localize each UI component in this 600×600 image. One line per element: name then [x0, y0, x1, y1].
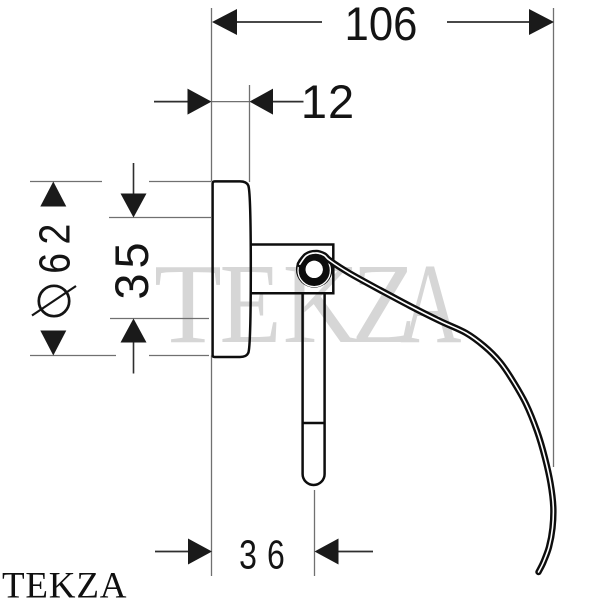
dimension dia62 arrow down: [40, 331, 66, 356]
svg-text:35: 35: [105, 237, 158, 299]
extension line x=314.5 (spindle axis): [314, 490, 316, 576]
dimension 106 arrow right: [529, 9, 554, 35]
svg-text:62: 62: [29, 215, 79, 274]
spindle joint line: [303, 422, 325, 425]
extension line y=217.5 (35 top): [109, 217, 211, 219]
spring wire white core: [300, 253, 554, 572]
spring coil disc: [296, 251, 333, 288]
dimension 106 arrow left: [212, 9, 237, 35]
dimension 12 arrow right: [250, 89, 274, 115]
extension line y=318.5 (35 bottom): [110, 318, 209, 320]
coil turn separation: [298, 254, 330, 286]
dimension 12 line: [154, 101, 304, 103]
dimension dia62 arrow up: [40, 182, 66, 207]
spring wire outer: [300, 253, 554, 572]
extension line x=249.5 (plate rear face): [249, 85, 251, 182]
dimension 36 line: [155, 551, 373, 553]
extension line y=181 (plate top): [30, 181, 211, 183]
extension line x=212 (plate front face): [211, 8, 213, 576]
dimension 36 arrow left: [188, 539, 212, 565]
svg-text:106: 106: [345, 0, 418, 51]
watermark TEKZA center: [154, 240, 461, 368]
dimension 35 outer lines: [133, 163, 135, 374]
dimension 36 arrow right: [315, 539, 339, 565]
wall plate (side view): [213, 181, 251, 357]
svg-text:36: 36: [239, 532, 295, 578]
dimension 35 arrow down (top): [121, 194, 147, 218]
roll spindle: [303, 293, 325, 485]
extension line x=554 (wire extent): [553, 8, 555, 467]
extension line y=355.5 (plate bottom): [30, 355, 209, 357]
diameter symbol: [32, 286, 76, 316]
coil hole: [306, 261, 323, 278]
bracket arm: [251, 245, 333, 294]
svg-text:12: 12: [301, 75, 355, 128]
dimension 106 line: [237, 21, 530, 23]
svg-text:TEKZA: TEKZA: [2, 566, 127, 600]
dimension 12 inner line: [212, 101, 250, 103]
dimension 12 arrow left: [188, 89, 212, 115]
dimension 35 arrow up (bottom): [121, 319, 147, 343]
